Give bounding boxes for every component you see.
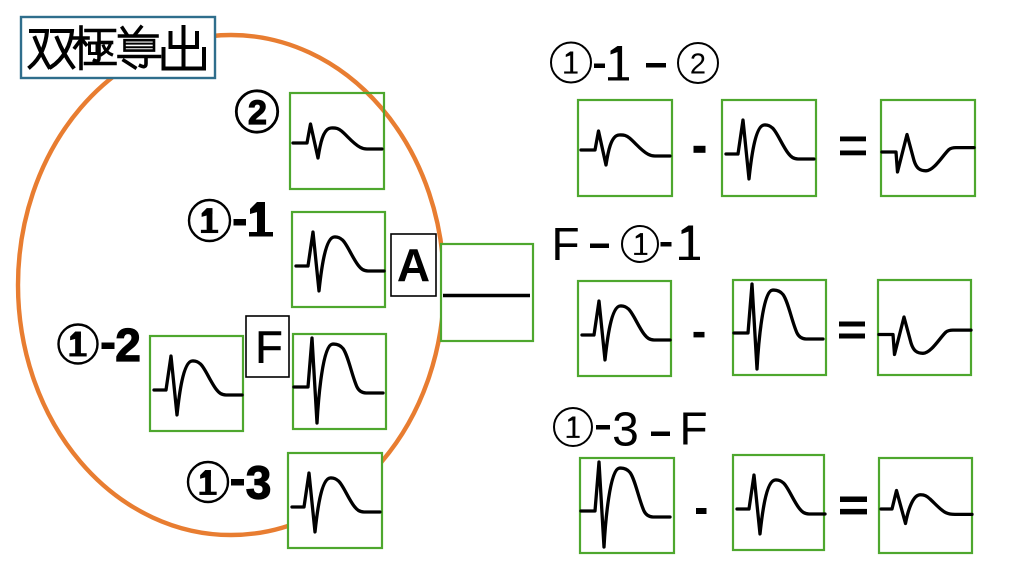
svg-text:A: A <box>397 239 430 291</box>
svg-text:F: F <box>255 322 283 373</box>
svg-text:2: 2 <box>115 319 141 371</box>
svg-text:2: 2 <box>690 49 706 81</box>
svg-text:3: 3 <box>612 404 639 457</box>
svg-text:F: F <box>679 403 707 455</box>
svg-text:3: 3 <box>246 457 272 509</box>
svg-text:F: F <box>551 218 579 270</box>
svg-text:2: 2 <box>248 94 267 132</box>
